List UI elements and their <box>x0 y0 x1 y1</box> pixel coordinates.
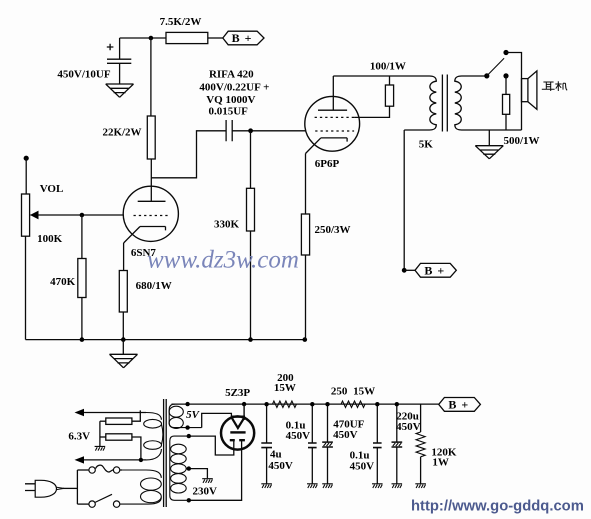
wire plate rail to OPT <box>333 75 429 77</box>
transformer T1 secondary <box>455 76 522 130</box>
svg-text:6P6P: 6P6P <box>315 158 340 170</box>
wire B+ feed from primary <box>403 130 405 270</box>
capacitor C1 450V/10UF <box>57 38 131 84</box>
capacitor 470UF 450V electrolytic <box>322 404 364 483</box>
resistor 470K <box>50 259 86 298</box>
svg-text:450V: 450V <box>350 460 375 472</box>
svg-text:http://www.go-gddq.com: http://www.go-gddq.com <box>411 499 584 515</box>
plug AC mains <box>25 470 77 504</box>
node dot B+ feed <box>402 268 407 273</box>
wire dot to flag <box>404 269 415 271</box>
switch S1 headphone <box>484 50 521 130</box>
ground G11 hash <box>415 484 426 488</box>
wire 470K bottom <box>81 298 83 340</box>
label 耳机 glyphs <box>542 81 567 91</box>
svg-text:www.dz3w.com: www.dz3w.com <box>147 247 299 274</box>
svg-text:1W: 1W <box>432 457 449 469</box>
svg-text:450V: 450V <box>268 460 293 472</box>
svg-text:22K/2W: 22K/2W <box>102 126 141 138</box>
ground G10 hash <box>392 484 403 488</box>
svg-text:470K: 470K <box>50 276 76 288</box>
ground G2 <box>110 340 138 368</box>
svg-text:450V: 450V <box>286 430 311 442</box>
node dot 470K-rail <box>80 337 85 342</box>
transformer T2 primary winding <box>120 470 162 504</box>
wire hum center <box>99 421 101 446</box>
svg-text:680/1W: 680/1W <box>136 280 172 292</box>
capacitor 0.1u 450V first <box>286 404 317 483</box>
ground G7 hash <box>307 484 318 488</box>
svg-text:B +: B + <box>424 264 445 278</box>
tube V2 6P6P <box>305 76 360 170</box>
resistor 120K 1W <box>416 404 457 483</box>
wire bottom rail <box>26 339 306 341</box>
resistor 680/1W <box>119 271 171 313</box>
node junction dot <box>149 36 154 41</box>
node dot HV bottom <box>187 498 191 502</box>
node dot lower hum <box>139 458 143 462</box>
resistor 250/3W <box>301 214 350 340</box>
tube V1 6SN7 <box>123 186 178 259</box>
wire to flag <box>208 37 223 39</box>
resistor 500/1W <box>503 94 540 147</box>
node junction dot grid <box>248 128 253 133</box>
resistor 200 15W <box>272 372 296 407</box>
ground G4 hash <box>202 479 213 483</box>
svg-text:5V: 5V <box>186 409 201 421</box>
wire 5Z3P right filament down <box>189 441 242 500</box>
resistor hum balance lower <box>100 434 141 460</box>
node dot HV top <box>187 434 191 438</box>
ground G3 <box>475 130 503 159</box>
capacitor 4u 450V <box>261 404 293 483</box>
wire 6.3V bottom with arrow <box>75 456 147 463</box>
resistor 22K/2W <box>102 116 155 159</box>
switch S2 mains lower <box>77 494 119 507</box>
wire cathode lead <box>123 243 125 271</box>
svg-text:500/1W: 500/1W <box>503 135 539 147</box>
wire pot bottom <box>25 236 27 339</box>
resistor hum balance upper <box>100 410 140 424</box>
svg-text:250: 250 <box>331 386 348 398</box>
resistor 330K <box>214 131 255 340</box>
svg-text:0.015UF: 0.015UF <box>208 105 248 117</box>
wire 6.3V top with arrow <box>75 409 147 416</box>
switch S2 mains upper <box>77 465 122 473</box>
node dot tube plate feed <box>242 402 246 406</box>
svg-text:VQ 1000V: VQ 1000V <box>206 94 255 106</box>
transformer T2 HV winding <box>170 436 189 500</box>
node dot 250-rail <box>303 337 308 342</box>
node dot 220u <box>395 402 399 406</box>
wire B+ rail PSU <box>172 403 439 405</box>
svg-text:230V: 230V <box>192 486 217 498</box>
svg-text:450V: 450V <box>333 429 358 441</box>
svg-text:VOL: VOL <box>40 183 64 195</box>
wire screen to 100/1W <box>354 106 389 117</box>
wire top rail to B+ <box>120 37 166 39</box>
node B+ flag 1 <box>223 31 264 45</box>
svg-text:6.3V: 6.3V <box>68 431 90 443</box>
resistor 7.5K/2W <box>160 16 208 44</box>
node B+ flag 3 <box>439 398 481 412</box>
speaker 耳机 <box>522 71 537 110</box>
svg-text:100/1W: 100/1W <box>370 60 406 72</box>
wire 5Z3P left filament to HV <box>189 436 234 455</box>
capacitor 220u 450V electrolytic <box>392 404 421 483</box>
node dot tap <box>187 466 191 470</box>
wire 470K top <box>81 215 83 259</box>
svg-text:5K: 5K <box>419 139 434 151</box>
node dot 0.1u second <box>375 402 379 406</box>
node dot 470UF <box>325 402 329 406</box>
node dot 5V top <box>185 402 189 406</box>
svg-text:15W: 15W <box>353 386 375 398</box>
tube V3 5Z3P rectifier <box>221 387 254 450</box>
transformer T2 5V winding <box>169 404 202 428</box>
transformer T2 power core <box>164 399 167 507</box>
wire coupling cap to 6P6P grid <box>232 130 306 132</box>
ground G8 hash <box>322 484 333 488</box>
node dot 330K-rail <box>248 337 253 342</box>
wire wiper to grid <box>38 214 123 216</box>
svg-text:15W: 15W <box>274 382 296 394</box>
node dot 680-rail <box>121 337 126 342</box>
wire 22K feed <box>150 38 152 116</box>
ground G5 hash <box>95 446 106 450</box>
wire filament step 5V to tube <box>202 413 232 427</box>
wire plate lead 6SN7 <box>150 159 152 201</box>
wire 680 bottom <box>122 312 124 340</box>
ground G9 hash <box>372 484 383 488</box>
resistor 250 15W <box>331 386 375 408</box>
svg-text:400V/0.22UF +: 400V/0.22UF + <box>199 81 269 93</box>
wire HV center tap <box>186 469 207 479</box>
svg-text:250/3W: 250/3W <box>314 224 350 236</box>
svg-text:B +: B + <box>448 398 469 412</box>
svg-text:B +: B + <box>232 31 253 45</box>
wire 500 feed <box>505 76 507 95</box>
ground G6 hash <box>261 484 272 488</box>
svg-text:330K: 330K <box>214 218 240 230</box>
node B+ flag 2 <box>415 263 456 277</box>
svg-text:4u: 4u <box>270 449 282 461</box>
capacitor 0.015UF coupling <box>199 69 269 142</box>
resistor VOL 100K potentiometer <box>22 183 64 245</box>
node dot 4u <box>264 402 268 406</box>
svg-text:5Z3P: 5Z3P <box>225 387 250 399</box>
svg-text:7.5K/2W: 7.5K/2W <box>160 16 202 28</box>
node dot 0.1u <box>310 402 314 406</box>
svg-text:450V/10UF: 450V/10UF <box>57 69 110 81</box>
wire cathode lead 6P6P <box>305 154 307 215</box>
wire input to pot <box>25 158 27 194</box>
wire plate branch to coupling cap <box>151 131 226 178</box>
wire 5Z3P top lead <box>243 404 245 420</box>
node junction dot wiper <box>80 213 85 218</box>
transformer T2 6.3V winding <box>144 413 163 460</box>
resistor 100/1W <box>370 60 406 106</box>
transformer T1 output 5K primary <box>404 76 436 151</box>
node dot 5V bottom <box>185 425 189 429</box>
capacitor 0.1u 450V second <box>350 404 382 483</box>
ground G1 <box>106 84 134 97</box>
transformer T1 core <box>442 75 447 132</box>
node input terminal <box>24 156 29 161</box>
svg-text:RIFA 420: RIFA 420 <box>209 69 254 81</box>
svg-text:450V: 450V <box>396 421 421 433</box>
svg-text:100K: 100K <box>37 233 63 245</box>
